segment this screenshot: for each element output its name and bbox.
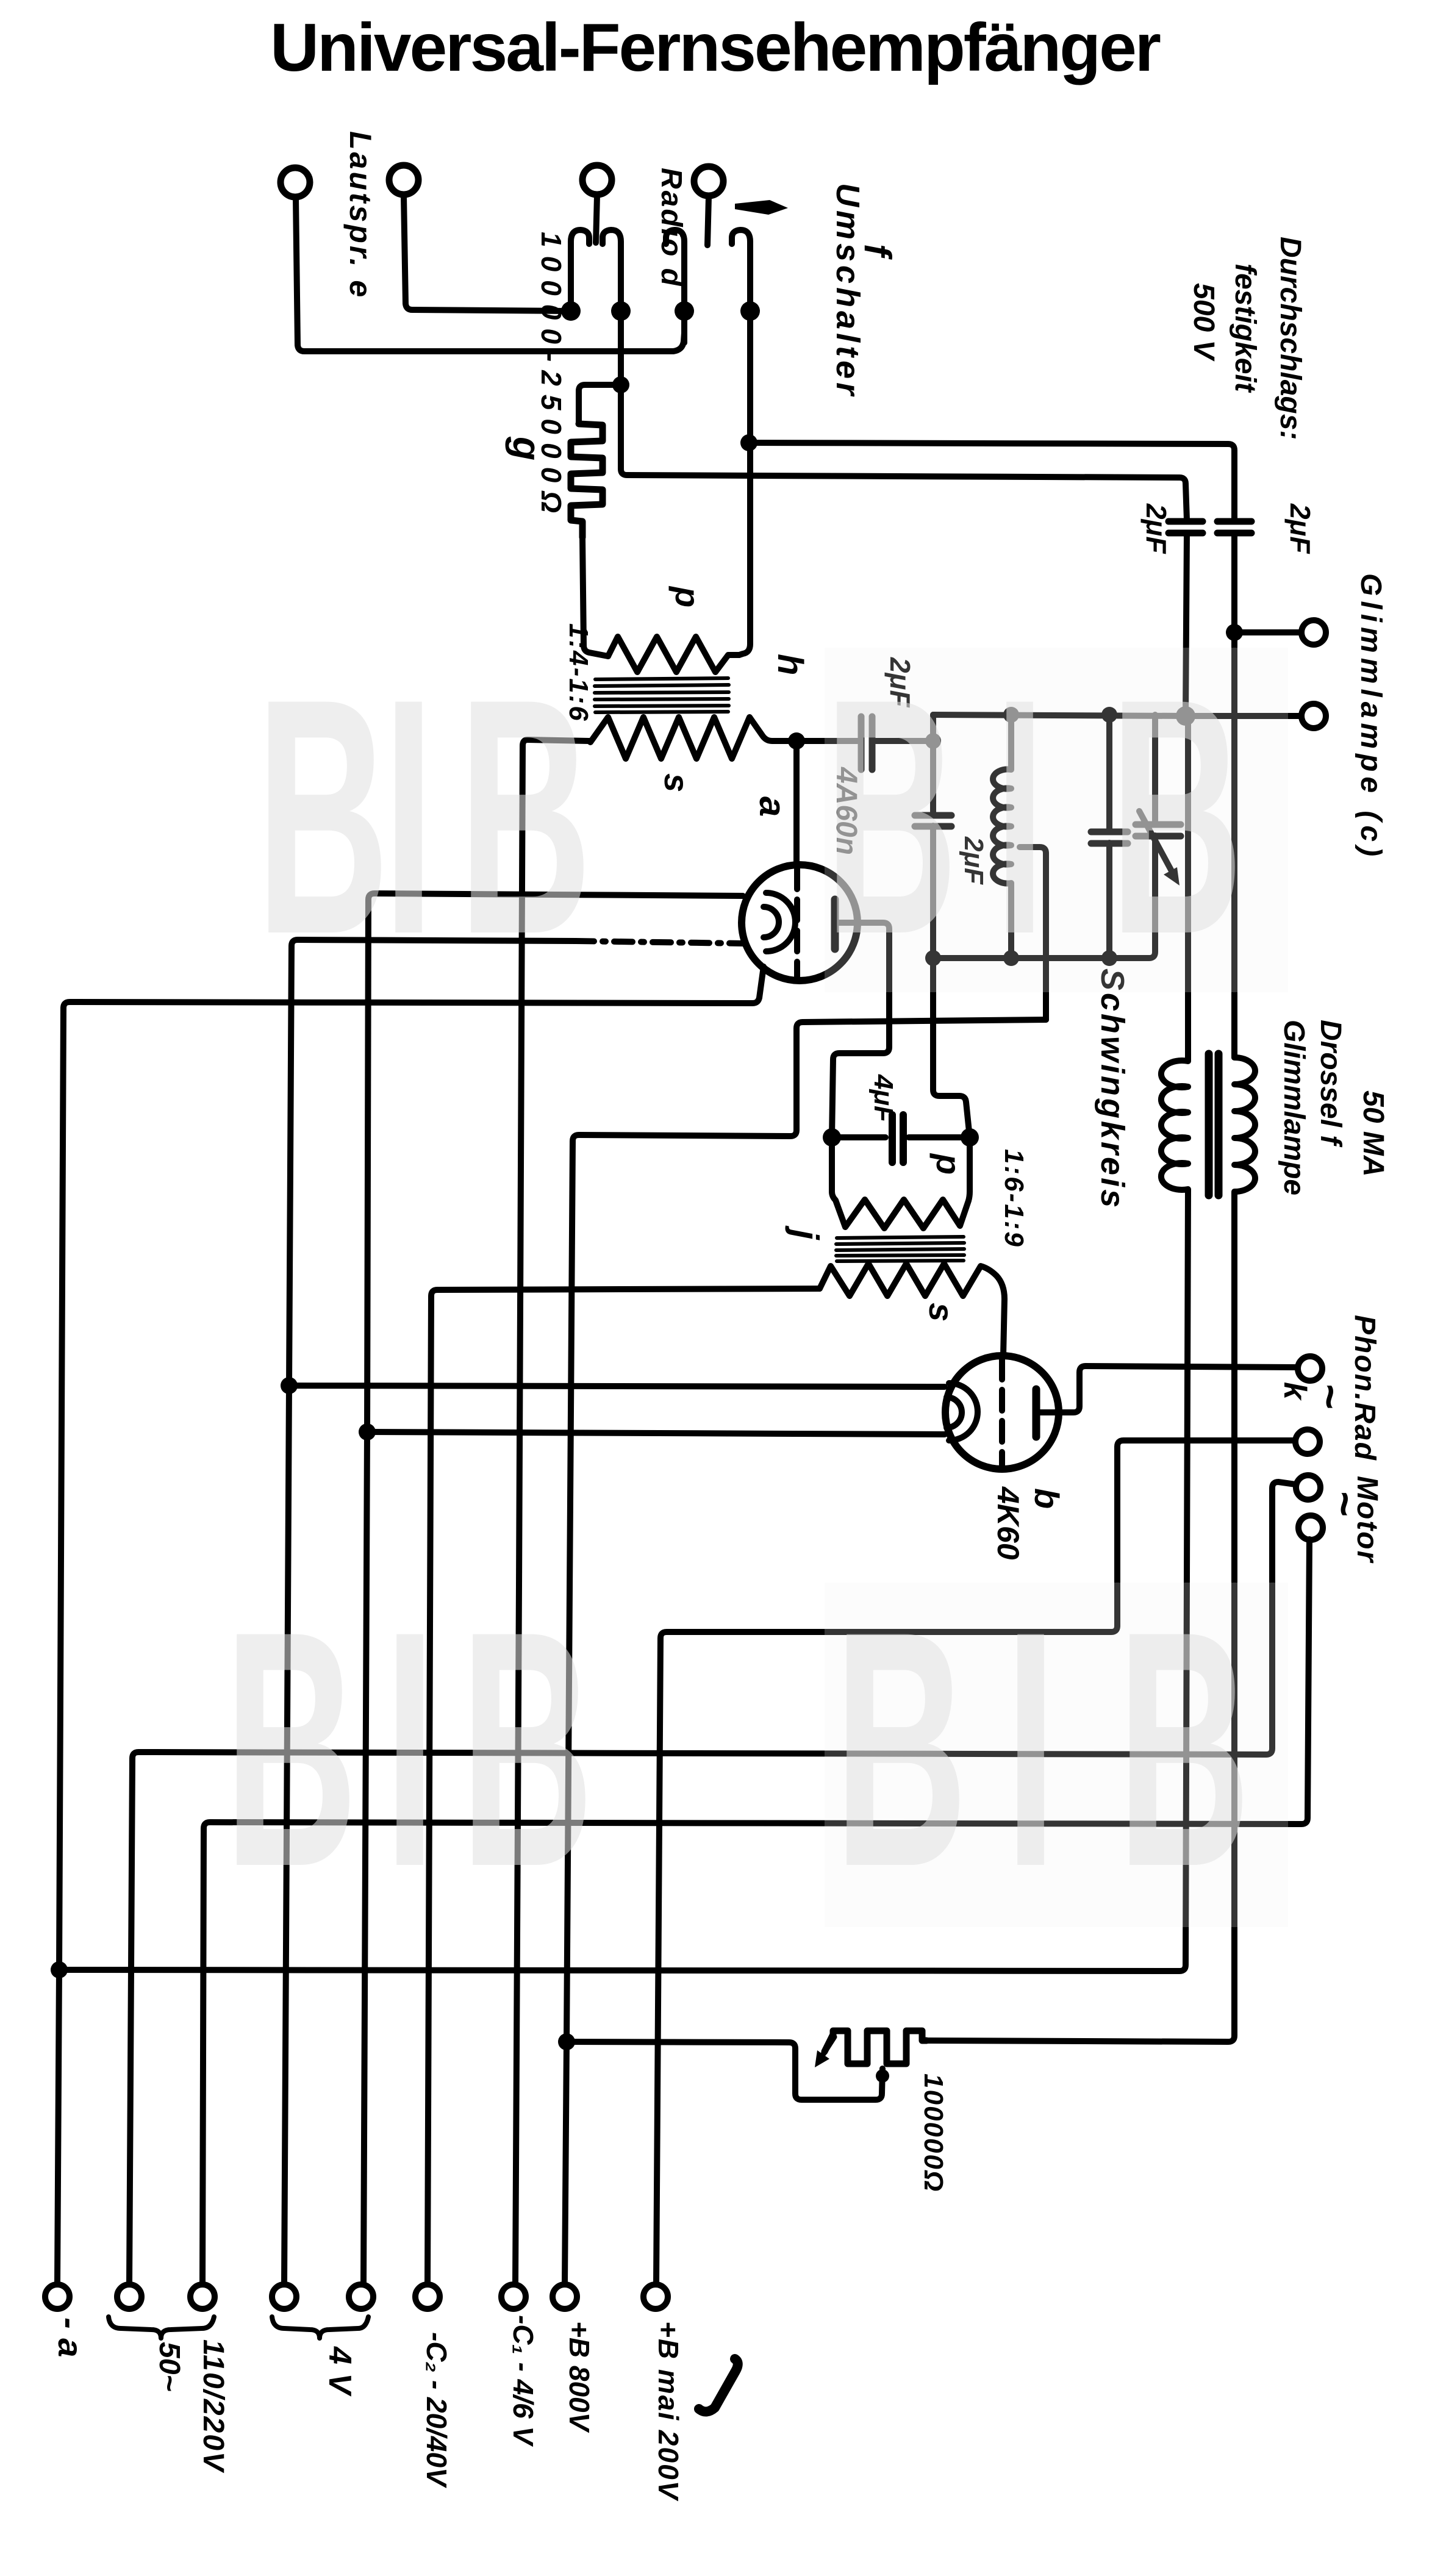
junction dot glimm upper: [1226, 624, 1243, 641]
terminal k upper: [1298, 1356, 1322, 1381]
capacitor fixed Schwingkreis: [1106, 715, 1112, 958]
transformer h primary winding p: [608, 637, 739, 672]
wire terminal Motor lower to mains left: [202, 1539, 1309, 2284]
svg-text:I: I: [994, 629, 1045, 1004]
tube a anode bar: [831, 900, 839, 949]
wire Radio terminal 2 stem (switch pole): [707, 197, 709, 245]
svg-text:+B mai 200V: +B mai 200V: [653, 2321, 684, 2502]
wire anode a to transformer j primary left: [832, 923, 889, 1137]
svg-text:B: B: [224, 1562, 357, 1937]
capacitor plates fixed: [1091, 832, 1128, 843]
wire anode b to terminal k upper: [1038, 1366, 1297, 1412]
terminal k lower: [1295, 1429, 1320, 1454]
svg-text:110/220V: 110/220V: [197, 2339, 229, 2474]
tube a envelope: [742, 865, 857, 981]
transformer j primary winding p: [832, 1137, 970, 1228]
tube b anode bar: [1033, 1389, 1040, 1437]
terminal Glimmlampe lower: [1301, 704, 1326, 728]
svg-text:100000Ω: 100000Ω: [918, 2073, 948, 2192]
wire heater b bottom from C junction: [367, 1432, 945, 1434]
Schwingkreis top bus: [933, 715, 1186, 716]
wire junction to resistor g: [579, 385, 621, 424]
svg-text:- a: - a: [51, 2317, 90, 2357]
svg-text:h: h: [770, 654, 810, 675]
coil Schwingkreis: [993, 715, 1011, 958]
svg-text:Phon.Rad: Phon.Rad: [1348, 1315, 1381, 1461]
junction dot contact D: [740, 301, 760, 321]
label l: [699, 2359, 738, 2412]
junction dot grid a node: [788, 732, 805, 750]
Schwingkreis bottom bus: [933, 955, 1149, 961]
terminal heater 1: [272, 2284, 296, 2309]
terminal Lautspr e 2: [389, 165, 418, 195]
brace heater: [272, 2317, 368, 2338]
svg-text:B: B: [834, 1562, 967, 1937]
junction dot contact B: [611, 301, 631, 321]
junction dot j primary right: [961, 1128, 979, 1147]
svg-text:Glimmlampe: Glimmlampe: [1278, 1020, 1310, 1195]
svg-text:a: a: [752, 796, 793, 817]
svg-text:4 V: 4 V: [322, 2346, 357, 2397]
transformer j primary bus with 4uF capacitor: [832, 1134, 970, 1140]
svg-text:festigkeit: festigkeit: [1229, 263, 1261, 393]
Drossel core bars: [1209, 1054, 1219, 1195]
capacitor 2uF (grid a coupling) plates: [861, 717, 872, 770]
terminal C2: [415, 2284, 440, 2309]
svg-text:2μF: 2μF: [1140, 503, 1172, 554]
Drossel right winding: [926, 1057, 1255, 2042]
transformer j core: [836, 1237, 964, 1261]
svg-text:4K60: 4K60: [991, 1486, 1025, 1560]
terminal mains 1: [117, 2284, 141, 2309]
svg-text:Umschalter: Umschalter: [829, 183, 866, 399]
wire heater top line from corner C: [363, 893, 743, 2284]
terminal Motor upper: [1296, 1475, 1320, 1500]
capacitor 2uF left plates: [1169, 521, 1203, 533]
terminal Motor lower: [1298, 1515, 1323, 1540]
watermark letters BIB row1: [224, 629, 1250, 1937]
svg-text:Glimmlampe (c): Glimmlampe (c): [1355, 573, 1387, 861]
junction dot contact C: [675, 301, 694, 321]
svg-text:p: p: [668, 585, 707, 607]
svg-text:B: B: [256, 629, 389, 1004]
arrow resistor start: [823, 2037, 834, 2054]
wire Schwingkreis bottom to transformer j primary right: [933, 958, 970, 1137]
svg-text:Lautspr. e: Lautspr. e: [343, 131, 378, 299]
junction dot W1 bleeder: [558, 2033, 575, 2050]
svg-text:Schwingkreis: Schwingkreis: [1094, 968, 1131, 1210]
svg-text:B: B: [1110, 629, 1243, 1004]
svg-text:Motor: Motor: [1351, 1476, 1383, 1564]
junction dot Schwingkreis left top: [925, 733, 941, 749]
wire glimm lower terminal: [1186, 713, 1300, 719]
svg-text:B: B: [1117, 1562, 1250, 1937]
terminal heater 2: [349, 2284, 373, 2309]
svg-text:+B 800V: +B 800V: [564, 2321, 595, 2433]
switch contact D hook: [732, 230, 750, 311]
junction dot heater C: [359, 1423, 376, 1440]
svg-text:Drossel f: Drossel f: [1314, 1020, 1347, 1147]
arrow switch selector: [735, 200, 788, 215]
capacitor variable Schwingkreis: [1149, 715, 1155, 958]
junction dots Schwingkreis: [1003, 707, 1019, 723]
terminal Radio d 2: [694, 166, 723, 196]
wire heater bottom line from corner B solid part: [284, 940, 576, 2284]
wire coil tap to W1: [1020, 847, 1046, 1020]
wire terminal k lower long return: [656, 1440, 1294, 2284]
svg-text:b: b: [1028, 1488, 1066, 1509]
wire resistor g bottom to transformer h primary left: [582, 537, 608, 656]
brace mains: [109, 2317, 214, 2338]
junction dot heater B: [281, 1377, 298, 1394]
Schwingkreis left branch with capacitor 2uF: [930, 715, 936, 958]
wire transformer j secondary left to terminal C2 line: [428, 1289, 820, 2284]
svg-text:4μF: 4μF: [868, 1074, 898, 1123]
wire heater bottom dash-dot into tube a: [576, 941, 743, 943]
tube a cathode arcs: [764, 893, 795, 951]
capacitor 4uF plates: [892, 1115, 903, 1162]
svg-text:I: I: [1005, 1562, 1056, 1937]
transformer h secondary winding s: [589, 717, 792, 759]
junction teardrop tap: [876, 2069, 889, 2083]
resistor g 10000-25000 ohm comb: [571, 424, 603, 537]
wire 2uF cap to Schwingkreis left: [876, 738, 933, 744]
watermark boxes: [825, 648, 1288, 1927]
wire cathode a line A: [57, 967, 764, 2284]
junction dot g top: [612, 376, 629, 393]
terminal B800: [553, 2284, 577, 2309]
svg-text:s: s: [657, 773, 696, 792]
svg-text:2μF: 2μF: [1284, 503, 1316, 554]
svg-text:I: I: [383, 629, 434, 1004]
terminal Lautspr e 1: [281, 168, 310, 197]
wire B HV line cap to Schwingkreis top: [1186, 533, 1187, 716]
svg-text:I: I: [384, 1562, 435, 1937]
junction dot contact A: [561, 301, 581, 321]
switch contact C hook: [666, 230, 684, 311]
terminal B200: [643, 2284, 668, 2309]
svg-text:-C₁ - 4/6 V: -C₁ - 4/6 V: [507, 2315, 539, 2447]
wire heater b top from B junction: [289, 1386, 945, 1387]
tube b cathode arcs: [947, 1383, 978, 1440]
tube b grid dashed: [999, 1359, 1005, 1466]
wire Radio terminal 1 stem (switch pole): [596, 196, 597, 243]
svg-text:1:6-1:9: 1:6-1:9: [999, 1149, 1029, 1248]
wire Lautspr terminal 2 stem to switch contact A: [404, 196, 567, 311]
svg-text:p: p: [929, 1153, 968, 1175]
switch contact A hook: [571, 230, 589, 311]
wire switch contact D down to transformer h primary right: [739, 311, 750, 655]
junction dot D HV tap: [740, 434, 757, 451]
svg-text:Universal-Fernsehempfänger: Universal-Fernsehempfänger: [270, 10, 1161, 85]
svg-text:k: k: [1277, 1382, 1312, 1401]
junction dot j primary left: [823, 1128, 841, 1147]
arrow variable capacitor: [1139, 811, 1172, 872]
wire cap to glimm junction: [1231, 533, 1237, 1057]
svg-text:Durchschlags:: Durchschlags:: [1274, 237, 1306, 440]
wire W1 coil tap return: [565, 1020, 1046, 2284]
wire junction to 2uF cap: [797, 738, 857, 744]
terminal a minus: [45, 2284, 70, 2309]
resistor 100000 ohm comb: [825, 2031, 926, 2064]
svg-text:B: B: [825, 629, 958, 1004]
wire Lautspr terminal 1 stem to switch contact C: [296, 198, 684, 351]
transformer h core: [595, 678, 729, 712]
svg-text:10000-25000Ω: 10000-25000Ω: [535, 232, 567, 521]
svg-text:500 V: 500 V: [1187, 283, 1220, 362]
svg-text:B: B: [460, 1562, 593, 1937]
svg-text:50 MA: 50 MA: [1357, 1090, 1389, 1176]
terminal Radio d 1: [582, 165, 612, 195]
terminal mains 2: [190, 2284, 215, 2309]
wire glimm upper terminal: [1234, 629, 1300, 635]
svg-text:-C₂ - 20/40V: -C₂ - 20/40V: [421, 2332, 453, 2488]
wire grid lead tube a: [793, 741, 800, 865]
transformer j secondary winding s: [820, 1264, 1004, 1356]
wire bleeder tap U: [567, 2042, 882, 2100]
switch contact B hook: [603, 230, 621, 311]
svg-text:50~: 50~: [153, 2342, 185, 2391]
wire terminal Motor upper to mains left: [129, 1482, 1295, 2284]
wire contact B down to resistor g junction and HV feed: [621, 311, 1187, 520]
capacitor plates variable: [1136, 825, 1181, 836]
junction dot line A: [51, 1961, 68, 1978]
wire transformer h secondary left to terminal C1 line: [515, 740, 589, 2284]
capacitor 2uF right plates: [1217, 521, 1251, 533]
svg-text:s: s: [922, 1303, 961, 1322]
svg-text:B: B: [459, 629, 592, 1004]
wire HV line from D junction to Drossel right: [749, 443, 1234, 520]
tube b envelope: [945, 1356, 1059, 1469]
terminal Glimmlampe upper: [1301, 620, 1326, 645]
Drossel left winding: [59, 716, 1188, 1971]
tube a grid dashed: [794, 868, 800, 977]
capacitor plates Schwingkreis left: [915, 815, 951, 826]
terminal C1: [501, 2284, 526, 2309]
